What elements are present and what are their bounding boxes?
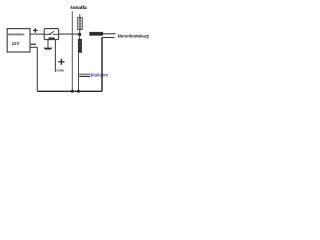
battery plus terminal label [33,28,38,33]
wire lights feed to fuse F1 [79,14,81,17]
wire battery plus to relay [30,33,44,35]
junction dot on bus (right) [77,90,80,93]
wire klakson stub lower [79,75,90,77]
battery minus terminal label [31,44,36,45]
wire junction A to fuse F2 [78,34,80,39]
relay K1 box [44,29,58,40]
battery B1 12V box [7,29,30,52]
coil plus label [58,59,64,65]
relay switch contact [44,31,58,34]
wire F3 to kierunkowskazy label [103,33,116,35]
wire battery minus stub [30,46,38,48]
wire vertical from turn-signal return down to bus [101,38,103,92]
wire relay coil pin down (cewka +) [54,40,56,72]
junction dot on bus (left) [71,90,74,93]
ground symbol [43,48,53,50]
svg-text:cewka: cewka [56,68,64,72]
svg-text:światła: światła [70,5,87,10]
relay coil (hatched bar at box bottom) [48,37,54,39]
fuse F1 (vertical, lights) [78,18,83,30]
wire relay to junction A [59,33,80,35]
ground bus wire (bottom) [37,90,102,92]
wire klakson stub upper [79,73,91,75]
fuse F3 (horizontal, turn signals) [90,32,103,35]
wire turn-signal return (lower) [102,37,114,39]
wire fuse F1 to junction A [79,30,81,35]
fuse F2 (vertical, dark hatched) [78,39,82,53]
wire fuse F2 down to bus [78,53,80,91]
wire relay left pin to ground [47,40,49,48]
svg-text:12V: 12V [12,41,20,46]
node A junction dot [78,33,81,36]
wire battery minus vertical down [36,47,38,91]
wire lights return line (left, straight to bus) [71,11,73,91]
svg-text:klakson: klakson [91,72,109,77]
svg-text:kierunkowskazy: kierunkowskazy [118,34,150,39]
